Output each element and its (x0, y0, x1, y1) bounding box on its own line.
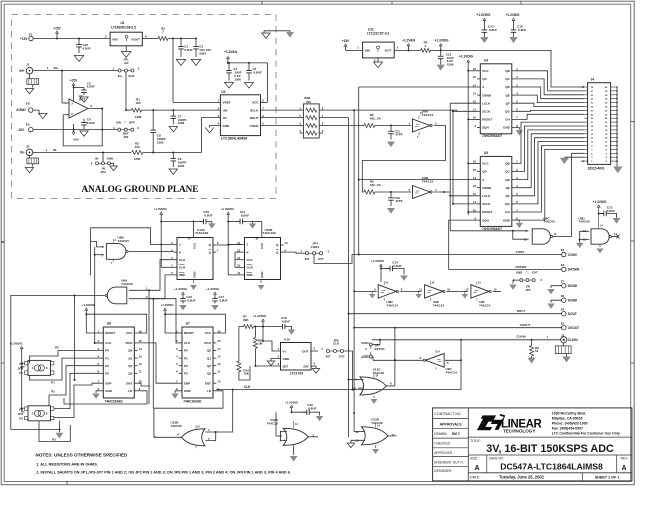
svg-text:RESET: RESET (482, 118, 492, 122)
svg-text:GND: GND (516, 271, 522, 275)
svg-text:LCLK: LCLK (482, 194, 491, 198)
svg-text:GH: GH (505, 210, 510, 214)
svg-text:QE: QE (505, 93, 509, 97)
svg-text:VIN: VIN (365, 49, 371, 53)
svg-text:E6: E6 (561, 294, 565, 298)
svg-text:47PF: 47PF (395, 133, 402, 137)
svg-text:10: 10 (217, 380, 221, 384)
svg-text:+1.3VDIG: +1.3VDIG (82, 303, 96, 307)
svg-text:+1.3VDIG: +1.3VDIG (154, 207, 168, 211)
svg-text:U4: U4 (484, 59, 488, 63)
svg-text:LT1460DCS8-2.5: LT1460DCS8-2.5 (111, 26, 136, 30)
svg-text:QF: QF (506, 101, 510, 105)
svg-text:SIZE: SIZE (470, 456, 478, 460)
svg-text:RESET: RESET (184, 331, 194, 335)
svg-text:CLKIN: CLKIN (516, 334, 525, 338)
svg-text:74AC14: 74AC14 (422, 113, 434, 117)
svg-text:VCC: VCC (252, 101, 259, 105)
svg-text:INT: INT (326, 354, 331, 358)
svg-text:+1.3VDIG: +1.3VDIG (434, 39, 449, 43)
svg-text:13: 13 (139, 354, 143, 358)
svg-text:CONV: CONV (568, 253, 578, 257)
svg-text:PRE: PRE (247, 273, 253, 277)
svg-text:74AC109: 74AC109 (263, 231, 276, 235)
svg-text:IN+: IN+ (118, 74, 123, 78)
svg-text:ANALOG GROUND PLANE: ANALOG GROUND PLANE (82, 184, 199, 194)
svg-text:IN+: IN+ (19, 69, 24, 73)
svg-text:A: A (474, 465, 479, 472)
svg-text:GND: GND (105, 389, 113, 393)
svg-text:6.8UF: 6.8UF (254, 71, 262, 75)
svg-text:462, 1%: 462, 1% (370, 183, 381, 187)
svg-text:AGND: AGND (16, 108, 26, 112)
svg-text:CONV: CONV (250, 124, 260, 128)
svg-text:ENT: ENT (126, 381, 132, 385)
svg-text:ENP: ENP (105, 381, 111, 385)
svg-text:A: A (621, 465, 626, 472)
svg-text:Q2: Q2 (207, 364, 211, 368)
svg-text:JP3: JP3 (100, 170, 106, 174)
svg-text:220: 220 (306, 100, 311, 104)
svg-text:+1.3VDIG: +1.3VDIG (206, 287, 220, 291)
svg-text:U5: U5 (484, 151, 488, 155)
svg-text:J4: J4 (591, 78, 595, 82)
svg-text:CLK: CLK (105, 341, 112, 345)
svg-text:SCLK: SCLK (482, 202, 491, 206)
svg-text:P0: P0 (105, 349, 109, 353)
svg-text:74HC595ADT: 74HC595ADT (482, 227, 502, 231)
svg-text:P1: P1 (184, 356, 188, 360)
svg-text:CHECKED:: CHECKED: (434, 442, 451, 446)
svg-text:74AC00: 74AC00 (543, 220, 555, 224)
svg-text:E5: E5 (561, 321, 565, 325)
svg-text:P1: P1 (51, 380, 55, 384)
svg-text:DATAIN: DATAIN (516, 265, 527, 269)
svg-text:VCC: VCC (193, 242, 197, 249)
svg-text:6.8UF: 6.8UF (241, 214, 249, 218)
svg-text:VCC: VCC (260, 242, 264, 249)
svg-text:VCC: VCC (482, 162, 489, 166)
svg-text:74AC14: 74AC14 (433, 304, 445, 308)
svg-text:GND: GND (184, 389, 192, 393)
svg-text:E9: E9 (26, 122, 30, 126)
svg-text:1206: 1206 (157, 140, 164, 144)
svg-text:+1.3VDIG: +1.3VDIG (174, 287, 188, 291)
svg-text:U1: U1 (120, 21, 124, 25)
svg-text:APPROVED:: APPROVED: (434, 451, 453, 455)
svg-text:1206: 1206 (134, 157, 141, 161)
svg-text:29K: 29K (243, 318, 249, 322)
svg-text:462, 1%: 462, 1% (370, 117, 381, 121)
svg-text:E7: E7 (561, 279, 565, 283)
svg-text:10: 10 (353, 387, 357, 391)
svg-text:GH: GH (505, 118, 510, 122)
svg-text:E1: E1 (29, 32, 33, 36)
svg-text:+1.3VDIG: +1.3VDIG (221, 207, 235, 211)
svg-text:Phone: (408)432-1900: Phone: (408)432-1900 (552, 422, 588, 426)
svg-text:E2: E2 (561, 248, 565, 252)
svg-text:P2: P2 (105, 364, 109, 368)
svg-text:47PF: 47PF (395, 199, 402, 203)
svg-text:LT1121CST-3.3: LT1121CST-3.3 (367, 31, 389, 35)
svg-text:CLK: CLK (244, 385, 251, 389)
svg-text:6.8UF: 6.8UF (282, 320, 290, 324)
svg-text:CLKIN: CLKIN (568, 338, 578, 342)
svg-text:CLR: CLR (179, 266, 186, 270)
svg-text:^: ^ (124, 120, 126, 124)
svg-text:10: 10 (284, 241, 288, 245)
svg-text:LTC Confidential-For Customer: LTC Confidential-For Customer Use Only (552, 432, 620, 436)
svg-text:^: ^ (526, 270, 528, 274)
svg-text:GND: GND (283, 357, 291, 361)
svg-text:11: 11 (392, 433, 395, 437)
svg-text:P3: P3 (184, 372, 188, 376)
svg-text:NOTES: UNLESS OTHERWISE SPECI: NOTES: UNLESS OTHERWISE SPECIFIED (36, 453, 128, 458)
svg-text:LCLK: LCLK (482, 101, 491, 105)
svg-text:J1: J1 (26, 63, 30, 67)
svg-text:DWG NO.: DWG NO. (489, 456, 504, 460)
svg-text:74AC109: 74AC109 (195, 231, 208, 235)
svg-text:P0: P0 (55, 345, 59, 349)
svg-text:CONV: CONV (311, 245, 320, 249)
svg-text:+IN: +IN (222, 108, 228, 112)
svg-text:+1.3VDIG: +1.3VDIG (592, 200, 607, 204)
svg-text:SQH: SQH (482, 126, 489, 130)
svg-text:EXTCK: EXTCK (375, 347, 386, 351)
svg-text:DGND: DGND (568, 299, 578, 303)
svg-text:74HC595ADT: 74HC595ADT (482, 134, 502, 138)
svg-text:SHEET 1 OF 1: SHEET 1 OF 1 (595, 476, 620, 480)
svg-text:REV: REV (621, 456, 629, 460)
svg-text:SQH: SQH (482, 218, 489, 222)
svg-text:RCO: RCO (126, 341, 133, 345)
svg-text:INT: INT (305, 257, 310, 261)
svg-text:JP5: JP5 (526, 288, 531, 292)
svg-text:+1.2VAN: +1.2VAN (224, 50, 237, 54)
svg-text:CKOUT: CKOUT (520, 323, 531, 327)
svg-text:ENT: ENT (205, 381, 211, 385)
svg-text:SCLK: SCLK (250, 108, 259, 112)
svg-text:6.8UF: 6.8UF (184, 48, 192, 52)
svg-text:74AC00: 74AC00 (121, 282, 133, 286)
svg-text:PRE: PRE (179, 273, 185, 277)
svg-text:DOUT: DOUT (517, 309, 526, 313)
svg-text:Q1: Q1 (128, 356, 132, 360)
svg-text:+1.3VDIG: +1.3VDIG (371, 259, 385, 263)
svg-text:Tuesday, June 25, 2002: Tuesday, June 25, 2002 (499, 475, 545, 480)
svg-text:1630 McCarthy Blvd.: 1630 McCarthy Blvd. (552, 412, 586, 416)
svg-text:E3: E3 (561, 263, 565, 267)
svg-text:OFF: OFF (129, 121, 135, 125)
svg-text:P0: P0 (184, 349, 188, 353)
svg-text:EXT: EXT (318, 257, 324, 261)
svg-text:74HC163AD: 74HC163AD (105, 399, 124, 403)
svg-text:100: 100 (134, 145, 139, 149)
svg-text:P3: P3 (52, 437, 56, 441)
svg-text:1. ALL RESISTORS ARE IN OHMS.: 1. ALL RESISTORS ARE IN OHMS. (36, 463, 98, 467)
svg-text:RCO: RCO (204, 341, 211, 345)
svg-text:DIV: DIV (303, 364, 308, 368)
svg-text:1206: 1206 (234, 77, 241, 81)
svg-text:GND: GND (193, 272, 197, 278)
svg-text:6.8UF: 6.8UF (87, 85, 95, 89)
svg-text:+1.3VDIG: +1.3VDIG (253, 314, 267, 318)
svg-text:Milpitas, CA 95035: Milpitas, CA 95035 (552, 417, 583, 421)
svg-text:ON: ON (116, 121, 121, 125)
svg-text:U10: U10 (284, 338, 290, 342)
svg-text:74AC00: 74AC00 (578, 220, 590, 224)
svg-text:13: 13 (355, 439, 359, 443)
svg-text:CLR: CLR (247, 266, 254, 270)
svg-text:13: 13 (473, 184, 477, 188)
svg-text:11: 11 (139, 370, 142, 374)
svg-text:Q0: Q0 (207, 349, 211, 353)
svg-text:74AC14: 74AC14 (446, 371, 458, 375)
svg-text:SET: SET (283, 364, 289, 368)
svg-text:+15V: +15V (20, 37, 28, 41)
svg-text:CLK: CLK (179, 258, 186, 262)
svg-text:51: 51 (535, 349, 539, 353)
svg-text:LTC1799: LTC1799 (290, 372, 303, 376)
svg-text:QG: QG (505, 110, 510, 114)
svg-text:+1.3VDIG: +1.3VDIG (9, 342, 23, 346)
svg-text:RM T.: RM T. (452, 432, 460, 436)
svg-text:RESET: RESET (105, 331, 115, 335)
svg-text:+1.3VDIG: +1.3VDIG (160, 303, 174, 307)
svg-text:Fax: (408)434-0507: Fax: (408)434-0507 (552, 427, 583, 431)
svg-text:CKIN: CKIN (361, 341, 368, 345)
svg-text:+1.3VDIG: +1.3VDIG (476, 13, 491, 17)
svg-text:1M: 1M (258, 342, 263, 346)
svg-text:14: 14 (217, 347, 221, 351)
svg-text:CLK: CLK (184, 341, 191, 345)
svg-text:74AC14: 74AC14 (479, 304, 491, 308)
svg-text:J2: J2 (26, 144, 30, 148)
svg-text:RESET: RESET (482, 210, 492, 214)
svg-text:VIN: VIN (112, 38, 118, 42)
svg-text:+15V: +15V (342, 39, 350, 43)
svg-text:APPROVALS: APPROVALS (439, 422, 462, 426)
svg-text:12: 12 (217, 362, 221, 366)
svg-text:DATE:: DATE: (470, 476, 480, 480)
svg-text:CKIN: CKIN (361, 355, 368, 359)
svg-text:DOUT: DOUT (250, 116, 259, 120)
svg-text:6.8UF: 6.8UF (308, 407, 316, 411)
svg-text:U3: U3 (221, 90, 225, 94)
svg-text:74HC163AD: 74HC163AD (183, 399, 202, 403)
svg-text:IN+: IN+ (54, 66, 59, 70)
svg-text:3V, 16-BIT 150KSPS ADC: 3V, 16-BIT 150KSPS ADC (486, 443, 614, 455)
svg-text:1206: 1206 (178, 164, 185, 168)
svg-text:CONV: CONV (516, 250, 525, 254)
svg-text:6.8UF: 6.8UF (83, 46, 91, 50)
svg-text:Q0: Q0 (128, 349, 132, 353)
svg-text:V+: V+ (283, 349, 287, 353)
svg-text:+1.3VDIG: +1.3VDIG (505, 13, 520, 17)
svg-text:1206: 1206 (178, 121, 185, 125)
svg-text:QG: QG (505, 202, 510, 206)
svg-text:Q3: Q3 (207, 372, 211, 376)
svg-text:J3: J3 (561, 333, 565, 337)
svg-text:6.8UF: 6.8UF (204, 214, 212, 218)
svg-text:CKOUT: CKOUT (568, 326, 579, 330)
svg-text:6.8UF: 6.8UF (607, 209, 615, 213)
svg-text:VOUT: VOUT (131, 38, 140, 42)
svg-text:6.8UF: 6.8UF (518, 28, 526, 32)
svg-text:GND: GND (503, 218, 511, 222)
svg-text:+1.2VAN: +1.2VAN (402, 39, 415, 43)
svg-text:14: 14 (139, 347, 143, 351)
svg-text:CONTRACT NO.: CONTRACT NO. (434, 412, 461, 416)
svg-text:13: 13 (217, 354, 221, 358)
svg-text:VREF: VREF (222, 101, 230, 105)
svg-text:15: 15 (473, 168, 477, 172)
svg-text:ENGINEER: GUY H.: ENGINEER: GUY H. (434, 460, 463, 464)
svg-text:CLK: CLK (333, 342, 340, 346)
svg-text:E8: E8 (26, 102, 30, 106)
svg-text:P3: P3 (105, 372, 109, 376)
svg-text:74AC32: 74AC32 (373, 371, 385, 375)
svg-text:+1.3VDIG: +1.3VDIG (285, 400, 299, 404)
svg-text:6.8UF: 6.8UF (187, 298, 195, 302)
svg-text:-15V: -15V (72, 137, 78, 141)
svg-text:0603: 0603 (199, 51, 206, 55)
svg-text:OUT: OUT (385, 49, 392, 53)
svg-text:OENB: OENB (482, 93, 492, 97)
svg-text:6.8UF: 6.8UF (489, 28, 497, 32)
svg-text:U6: U6 (107, 322, 111, 326)
svg-text:IN-: IN- (20, 151, 24, 155)
svg-text:QF: QF (506, 194, 510, 198)
svg-text:SCLK: SCLK (482, 110, 491, 114)
svg-text:P3: P3 (19, 417, 23, 421)
svg-text:74AC00: 74AC00 (118, 239, 130, 243)
svg-text:10K: 10K (243, 372, 249, 376)
svg-text:32015-4001: 32015-4001 (588, 167, 605, 171)
svg-text:Q1: Q1 (207, 356, 211, 360)
svg-text:+IN: +IN (124, 61, 129, 65)
svg-text:DRAWN:: DRAWN: (434, 432, 447, 436)
svg-text:DGND: DGND (568, 284, 578, 288)
svg-text:1206: 1206 (135, 115, 142, 119)
svg-text:DOUT: DOUT (568, 312, 577, 316)
svg-text:IN-: IN- (53, 148, 57, 152)
svg-text:74AC14: 74AC14 (422, 180, 434, 184)
svg-text:6.8UF: 6.8UF (87, 121, 95, 125)
svg-text:GND: GND (222, 124, 230, 128)
svg-text:15: 15 (473, 75, 477, 79)
svg-text:Q2: Q2 (128, 364, 132, 368)
svg-text:11: 11 (217, 370, 220, 374)
svg-text:VCC: VCC (126, 331, 133, 335)
svg-text:EXT: EXT (532, 271, 538, 275)
svg-text:TITLE:: TITLE: (470, 439, 481, 443)
svg-text:IN-: IN- (95, 157, 99, 161)
svg-text:6.8UF: 6.8UF (219, 298, 227, 302)
svg-text:VCC: VCC (205, 331, 212, 335)
svg-text:6.8UF: 6.8UF (393, 264, 401, 268)
svg-text:DC547A-LTC1864LAIMS8: DC547A-LTC1864LAIMS8 (500, 462, 603, 472)
svg-text:P2: P2 (51, 389, 55, 393)
svg-text:JP2: JP2 (123, 135, 129, 139)
svg-text:DESIGNER:: DESIGNER: (434, 469, 452, 473)
svg-text:JP9: JP9 (18, 412, 24, 416)
svg-text:-15V: -15V (17, 128, 25, 132)
svg-text:CLK: CLK (247, 258, 254, 262)
svg-text:OUT: OUT (302, 349, 309, 353)
svg-text:P1: P1 (105, 356, 109, 360)
svg-text:VCC: VCC (482, 69, 489, 73)
svg-text:DATAIN: DATAIN (568, 268, 580, 272)
svg-text:U7: U7 (186, 322, 190, 326)
svg-text:E4: E4 (561, 307, 565, 311)
svg-text:+15V: +15V (70, 79, 78, 83)
svg-text:15: 15 (217, 339, 221, 343)
svg-text:GND: GND (260, 272, 264, 278)
svg-text:100: 100 (135, 101, 140, 105)
svg-text:74AC32: 74AC32 (267, 421, 279, 425)
svg-text:+15V: +15V (53, 27, 61, 31)
svg-text:13: 13 (473, 91, 477, 95)
svg-text:QE: QE (505, 186, 509, 190)
svg-text:Q3: Q3 (128, 372, 132, 376)
svg-text:2. INSTALL SHUNTS ON JP1,JP3-: 2. INSTALL SHUNTS ON JP1,JP3-JP7 PIN 1 A… (36, 470, 291, 474)
svg-text:12: 12 (139, 362, 143, 366)
svg-text:TECHNOLOGY: TECHNOLOGY (503, 429, 535, 434)
svg-text:ENP: ENP (184, 381, 190, 385)
svg-text:GND: GND (107, 157, 113, 161)
svg-text:P2: P2 (184, 364, 188, 368)
svg-text:1206: 1206 (447, 63, 454, 67)
svg-text:74AC32: 74AC32 (170, 424, 182, 428)
svg-text:74AC14: 74AC14 (386, 304, 398, 308)
svg-text:+1.3VDIG: +1.3VDIG (459, 54, 474, 58)
svg-text:LTC1864LAIMS8: LTC1864LAIMS8 (221, 137, 247, 141)
svg-text:BUF: BUF (129, 74, 135, 78)
svg-text:EXT: EXT (339, 354, 345, 358)
svg-text:OENB: OENB (482, 186, 492, 190)
svg-text:GND: GND (503, 126, 511, 130)
